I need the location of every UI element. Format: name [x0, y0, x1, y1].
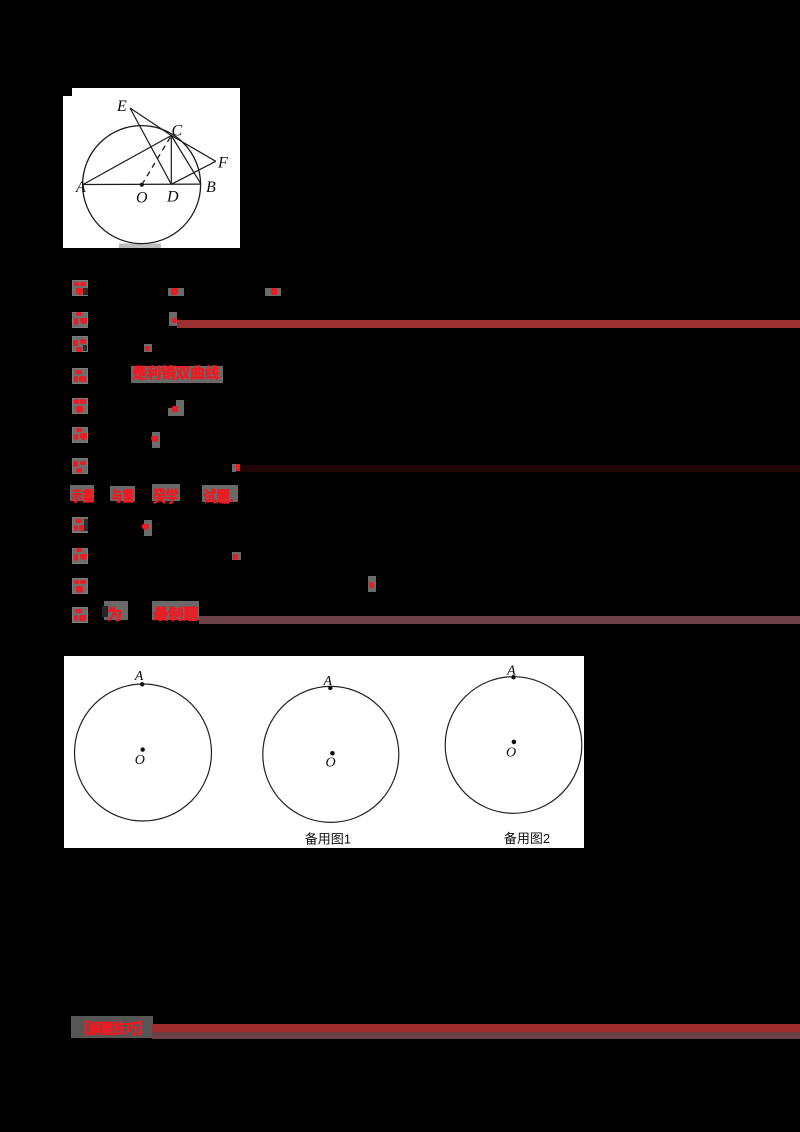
- svg-text:B: B: [206, 179, 216, 196]
- node A3 dot: [511, 675, 515, 679]
- circles panel: [64, 656, 585, 848]
- row5 emoji blob: [72, 398, 88, 414]
- row4 gray highlight: [131, 366, 223, 383]
- svg-text:E: E: [116, 98, 127, 115]
- wire DF: [171, 161, 216, 184]
- row9 emoji blob: [72, 517, 88, 533]
- node A2 dot: [328, 686, 332, 690]
- wire CF: [171, 136, 216, 162]
- row7 dark red rule: [240, 465, 800, 472]
- row4 red text: [132, 366, 219, 383]
- row7 emoji blob: [72, 458, 88, 474]
- wire ED: [130, 108, 171, 184]
- bottom mauve rule: [152, 1032, 800, 1040]
- row8 red text cluster 2: [110, 486, 135, 502]
- row11 red mark: [368, 576, 376, 593]
- row5 red mark: [168, 400, 184, 416]
- row10 red mark: [232, 552, 241, 561]
- row2 long red rule: [177, 320, 800, 328]
- svg-text:A: A: [133, 669, 143, 684]
- node O3 dot: [511, 740, 516, 745]
- svg-text:O: O: [136, 190, 148, 207]
- svg-text:备用图2: 备用图2: [503, 831, 549, 846]
- row12 mauve rule: [199, 616, 800, 624]
- wire AC: [83, 136, 171, 185]
- bottom analysis band gray: [71, 1016, 153, 1038]
- gray smudge bottom: [119, 244, 161, 249]
- row8 red text cluster 1: [70, 485, 94, 502]
- svg-text:O: O: [134, 753, 144, 768]
- svg-text:D: D: [166, 189, 179, 206]
- bottom analysis red text: [77, 1018, 149, 1038]
- row1 red mark 1: [168, 288, 184, 296]
- svg-text:O: O: [506, 746, 516, 761]
- row6 emoji blob: [72, 427, 88, 443]
- geometry figure panel: [63, 88, 240, 248]
- svg-text:O: O: [325, 756, 335, 771]
- row7 red mark: [232, 464, 236, 472]
- white panel background: [63, 88, 240, 248]
- circle O: [83, 126, 201, 244]
- wire CD: [170, 136, 172, 185]
- row2 red mark: [169, 312, 177, 326]
- row8 red text cluster 4: [202, 485, 238, 502]
- circle 3: [445, 677, 582, 814]
- row12 red char box: [104, 601, 128, 620]
- row11 emoji blob: [72, 578, 88, 594]
- node O2 dot: [330, 751, 335, 756]
- bottom bright red rule: [152, 1024, 800, 1032]
- row9 red mark: [144, 520, 152, 536]
- svg-text:F: F: [217, 155, 228, 172]
- row8 red text cluster 3: [152, 484, 180, 501]
- row12 emoji blob: [72, 607, 88, 623]
- node O1 dot: [140, 747, 144, 751]
- svg-text:A: A: [506, 664, 516, 679]
- node A1 dot: [140, 682, 144, 686]
- white panel background: [64, 656, 585, 848]
- wire CE: [130, 108, 171, 136]
- row12 red text cluster: [152, 601, 199, 620]
- svg-text:A: A: [75, 179, 86, 196]
- svg-text:C: C: [172, 123, 183, 140]
- row10 emoji blob: [72, 548, 88, 564]
- row3 red mark: [144, 344, 152, 352]
- row1 emoji blob: [72, 280, 88, 296]
- row4 emoji blob: [72, 368, 88, 384]
- svg-text:A: A: [322, 674, 332, 689]
- row3 emoji blob: [72, 336, 88, 352]
- row1 red mark 2: [265, 288, 281, 296]
- wire CB: [171, 136, 201, 184]
- wire AB diameter: [83, 183, 201, 185]
- row2 emoji blob: [72, 312, 88, 328]
- circle 2: [262, 686, 398, 822]
- node O dot: [140, 183, 144, 187]
- circle 1: [74, 684, 211, 821]
- black notch top-left: [63, 88, 72, 96]
- wire OC dashed: [142, 136, 172, 185]
- svg-text:备用图1: 备用图1: [304, 832, 350, 847]
- row6 red mark: [152, 432, 160, 448]
